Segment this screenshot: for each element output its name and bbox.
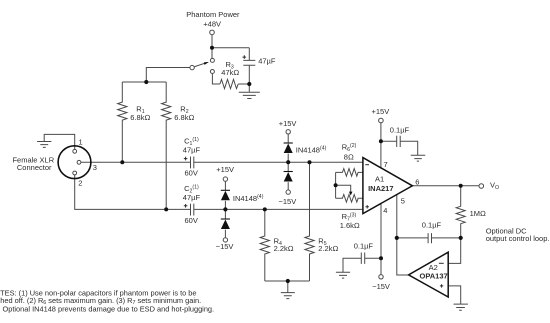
svg-text:output control loop.: output control loop. [486,234,550,243]
svg-text:R6(2): R6(2) [342,143,357,154]
svg-text:+48V: +48V [203,20,221,29]
svg-text:1: 1 [79,137,83,146]
svg-text:3: 3 [93,163,97,172]
svg-text:6.8kΩ: 6.8kΩ [174,113,194,122]
svg-text:0.1µF: 0.1µF [422,221,442,230]
svg-text:8Ω: 8Ω [344,153,354,162]
svg-text:Optional IN4148 prevents damag: Optional IN4148 prevents damage due to E… [3,304,215,313]
svg-text:−15V: −15V [216,242,234,251]
svg-text:INA217: INA217 [368,184,393,193]
svg-text:IN4148(4): IN4148(4) [296,145,327,154]
svg-text:−15V: −15V [279,197,297,206]
svg-text:+15V: +15V [216,165,234,174]
svg-text:1.6kΩ: 1.6kΩ [340,221,360,230]
svg-text:A1: A1 [375,175,384,184]
svg-text:60V: 60V [185,216,198,225]
svg-text:47kΩ: 47kΩ [221,68,239,77]
svg-text:60V: 60V [185,169,198,178]
svg-text:−15V: −15V [372,282,390,291]
svg-text:2: 2 [78,178,82,187]
svg-text:4: 4 [383,206,387,215]
svg-text:47µF: 47µF [183,193,201,202]
svg-text:2.2kΩ: 2.2kΩ [318,244,338,253]
svg-text:6: 6 [415,178,419,187]
svg-text:+15V: +15V [279,119,297,128]
svg-text:47µF: 47µF [258,57,276,66]
svg-text:0.1µF: 0.1µF [354,241,374,250]
svg-text:Connector: Connector [17,163,52,172]
svg-text:1MΩ: 1MΩ [470,209,486,218]
svg-text:47µF: 47µF [183,146,201,155]
svg-text:Phantom Power: Phantom Power [186,10,240,19]
svg-text:+15V: +15V [372,107,390,116]
svg-text:A2: A2 [429,263,438,272]
svg-text:OPA137: OPA137 [419,272,447,281]
svg-text:5: 5 [401,197,405,206]
svg-text:6.8kΩ: 6.8kΩ [130,113,150,122]
svg-text:IN4148(4): IN4148(4) [233,194,264,203]
svg-text:2.2kΩ: 2.2kΩ [274,244,294,253]
svg-text:7: 7 [384,160,388,169]
svg-text:0.1µF: 0.1µF [390,125,410,134]
svg-text:VO: VO [490,181,499,192]
